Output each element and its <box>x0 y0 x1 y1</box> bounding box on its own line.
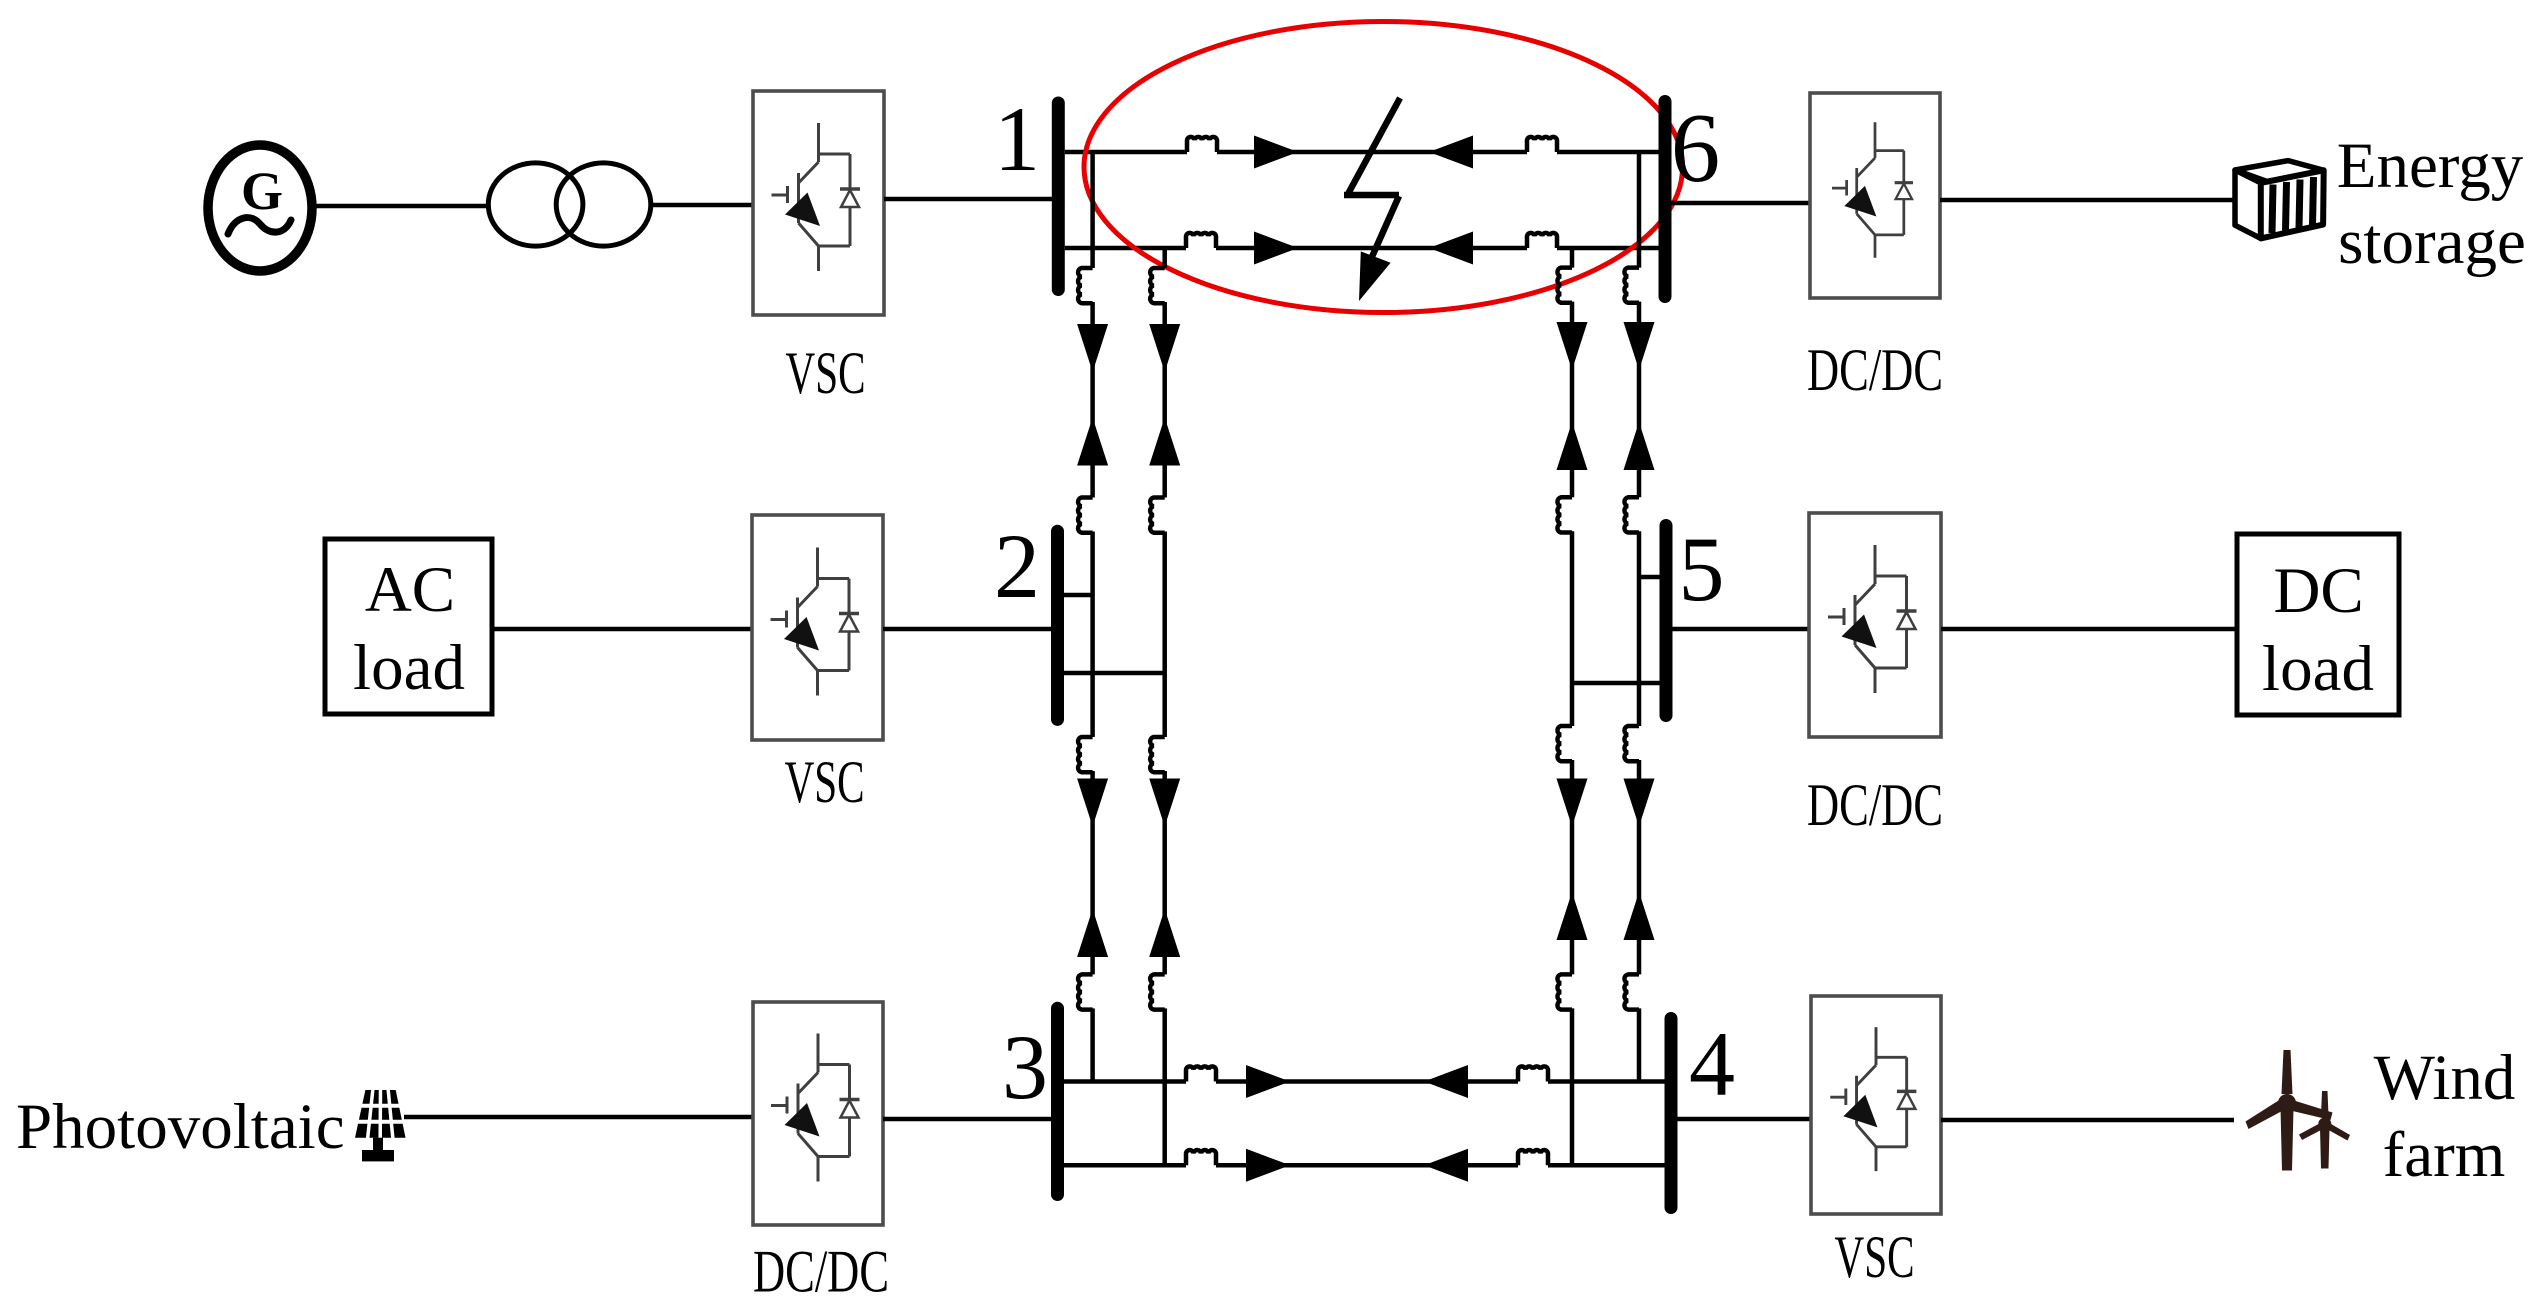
svg-text:VSC: VSC <box>786 340 866 406</box>
wire generator to transformer <box>312 204 490 209</box>
wire DC/DC to energy storage <box>1940 198 2234 203</box>
inductor L1 seg B bottom <box>1078 974 1093 1009</box>
inductor line16a right <box>1527 137 1557 152</box>
flow arrow line34a left-pointing <box>1424 1065 1468 1098</box>
converter box VSC1 <box>753 91 884 315</box>
flow arrow L2 segA down <box>1149 324 1180 372</box>
bus 2 stub to line L2 <box>1062 671 1165 676</box>
wire DC/DC to DC load <box>1941 627 2237 632</box>
svg-text:AC: AC <box>365 554 455 626</box>
wire bus 4 to VSC converter 6 <box>1677 1117 1811 1122</box>
converter box VSC2 <box>752 515 883 740</box>
inductor L1 seg B top <box>1078 737 1093 772</box>
inductor line16b left <box>1186 233 1216 248</box>
inductor R2 seg A top <box>1557 268 1572 303</box>
inductor line34a left <box>1186 1066 1216 1081</box>
flow arrow L1 segB down <box>1077 779 1108 827</box>
bus 3 <box>1051 1008 1064 1194</box>
label Energy storage <box>2337 130 2526 278</box>
svg-text:Photovoltaic: Photovoltaic <box>16 1091 345 1163</box>
svg-text:storage: storage <box>2338 206 2526 278</box>
wire AC load to VSC2 <box>492 627 752 632</box>
converter box DC/DC bottom-left <box>753 1002 883 1225</box>
wire VSC2 to bus 2 <box>883 627 1052 632</box>
label DC load <box>2262 555 2374 705</box>
svg-text:5: 5 <box>1679 518 1725 620</box>
IGBT inside VSC2 <box>771 548 860 696</box>
svg-text:4: 4 <box>1689 1013 1735 1115</box>
inductor line34a right <box>1518 1066 1548 1081</box>
generator G <box>208 145 312 271</box>
wire bus 5 to DC/DC converter 5 <box>1671 627 1809 632</box>
svg-text:DC/DC: DC/DC <box>753 1239 889 1305</box>
flow arrow L1 segB up <box>1077 909 1108 957</box>
flow arrow line16b right-pointing <box>1254 232 1298 265</box>
fault zone red ellipse <box>1084 22 1683 313</box>
transformer <box>488 163 651 246</box>
bus 5 <box>1660 526 1673 716</box>
bus 1 <box>1052 103 1065 290</box>
svg-text:3: 3 <box>1002 1016 1048 1118</box>
IGBT inside DC/DC bottom-left <box>771 1034 860 1182</box>
flow arrow line34a right-pointing <box>1246 1065 1290 1098</box>
flow arrow R2 segA down <box>1557 322 1588 370</box>
svg-text:farm: farm <box>2383 1119 2506 1191</box>
flow arrow L2 segA up <box>1149 418 1180 466</box>
converter box DC/DC top-right <box>1810 93 1940 298</box>
converter box VSC bottom-right <box>1811 996 1941 1214</box>
wire DC/DC to bus 3 <box>883 1117 1052 1122</box>
inductor R1 seg B bottom <box>1624 974 1639 1009</box>
converter box DC/DC mid-right <box>1809 513 1941 737</box>
svg-text:load: load <box>353 632 465 704</box>
inductor line16a left <box>1187 137 1217 152</box>
flow arrow R1 segA down <box>1624 322 1655 370</box>
inductor L2 seg B top <box>1150 737 1165 772</box>
flow arrow line34b right-pointing <box>1246 1149 1290 1182</box>
flow arrow R1 segB up <box>1624 892 1655 940</box>
bus 4 <box>1665 1019 1678 1208</box>
flow arrow line16a left-pointing <box>1429 136 1473 169</box>
inductor R2 seg A bottom <box>1557 497 1572 532</box>
flow arrow L2 segB down <box>1149 779 1180 827</box>
bus 5 stub to line R1 <box>1639 575 1661 580</box>
inductor L2 seg A top <box>1150 268 1165 303</box>
label AC load <box>353 554 465 704</box>
label Wind farm <box>2374 1042 2516 1191</box>
dc line bus6-bus5-bus4 inner vertical wire (line R1) <box>1637 152 1642 1082</box>
inductor L1 seg A top <box>1078 268 1093 303</box>
inductor line34b left <box>1186 1150 1216 1165</box>
fault lightning bolt <box>1344 98 1400 301</box>
svg-text:DC: DC <box>2273 555 2363 627</box>
flow arrow L2 segB up <box>1149 909 1180 957</box>
inductor R1 seg B top <box>1624 726 1639 761</box>
dc line bus1-bus6 lower wire <box>1065 246 1659 251</box>
inductor line16b right <box>1527 233 1557 248</box>
wire VSC1 to bus 1 <box>884 197 1053 202</box>
IGBT inside DC/DC top-right <box>1832 122 1913 257</box>
wire photovoltaic to DC/DC converter 3 <box>404 1115 753 1120</box>
IGBT inside VSC bottom-right <box>1830 1027 1916 1171</box>
dc line bus6-bus5-bus4 outer vertical wire (line R2) <box>1570 249 1575 1165</box>
wire bus 6 to DC/DC converter <box>1671 201 1810 206</box>
bus 2 <box>1051 531 1064 719</box>
svg-text:G: G <box>241 161 283 221</box>
svg-text:VSC: VSC <box>1835 1224 1915 1290</box>
IGBT U1 inside VSC1 <box>772 123 861 271</box>
bus 5 stub to line R2 <box>1572 681 1661 686</box>
wire transformer to VSC converter <box>651 203 753 208</box>
dc line bus1-bus2-bus3 left vertical wire (line L1) <box>1090 152 1095 1082</box>
flow arrow line16a right-pointing <box>1254 136 1298 169</box>
flow arrow line16b left-pointing <box>1429 232 1473 265</box>
svg-text:1: 1 <box>994 88 1040 190</box>
inductor R2 seg B top <box>1557 726 1572 761</box>
flow arrow R1 segB down <box>1624 779 1655 827</box>
svg-text:2: 2 <box>994 515 1040 617</box>
flow arrow R2 segA up <box>1557 422 1588 470</box>
flow arrow L1 segA up <box>1077 418 1108 466</box>
svg-text:Wind: Wind <box>2374 1042 2516 1114</box>
AC load box <box>325 539 492 714</box>
dc line bus1-bus6 upper wire <box>1065 150 1659 155</box>
svg-text:6: 6 <box>1671 94 1721 203</box>
inductor L1 seg A bottom <box>1078 498 1093 533</box>
dc line bus1-bus2-bus3 right vertical wire (line L2) <box>1162 248 1167 1165</box>
svg-text:Energy: Energy <box>2337 130 2524 202</box>
dc line bus3-bus4 upper wire <box>1063 1079 1665 1084</box>
flow arrow L1 segA down <box>1077 324 1108 372</box>
inductor R2 seg B bottom <box>1557 974 1572 1009</box>
bus 2 stub to line L1 <box>1062 593 1093 598</box>
flow arrow R2 segB up <box>1557 892 1588 940</box>
wind farm turbines icon <box>2246 1050 2351 1171</box>
IGBT inside DC/DC mid-right <box>1828 545 1917 693</box>
svg-text:DC/DC: DC/DC <box>1807 772 1943 838</box>
svg-text:load: load <box>2262 633 2374 705</box>
wire VSC to wind farm <box>1941 1118 2234 1123</box>
energy storage container icon <box>2235 161 2324 239</box>
flow arrow R1 segA up <box>1624 422 1655 470</box>
photovoltaic panel icon <box>355 1089 406 1161</box>
dc line bus3-bus4 lower wire <box>1063 1163 1665 1168</box>
flow arrow R2 segB down <box>1557 779 1588 827</box>
svg-text:DC/DC: DC/DC <box>1807 337 1943 403</box>
DC load box <box>2237 534 2399 715</box>
inductor L2 seg A bottom <box>1150 498 1165 533</box>
inductor R1 seg A top <box>1624 268 1639 303</box>
inductor line34b right <box>1518 1150 1548 1165</box>
inductor R1 seg A bottom <box>1624 497 1639 532</box>
bus 6 <box>1659 102 1672 297</box>
inductor L2 seg B bottom <box>1150 974 1165 1009</box>
svg-text:VSC: VSC <box>785 749 865 815</box>
flow arrow line34b left-pointing <box>1424 1149 1468 1182</box>
